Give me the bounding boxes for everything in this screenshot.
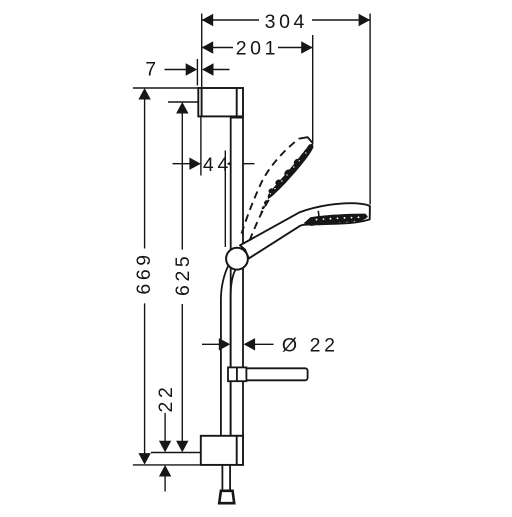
- svg-text:4: 4: [217, 154, 228, 176]
- dashed raised handshower inner curve: [250, 189, 276, 241]
- arrow 625 bottom: [176, 441, 188, 453]
- dimension line 201: [202, 47, 233, 49]
- arrow dia22 right: [244, 338, 256, 350]
- arrow 669 top: [138, 88, 150, 100]
- dimension line 304: [202, 19, 259, 21]
- dashed head band blobs: [260, 199, 269, 213]
- dimension line 625 vertical: [181, 113, 183, 250]
- extension line 7dim aux: [196, 59, 198, 86]
- dimension line 669 vertical: [144, 99, 146, 249]
- dashed head spray band: [268, 144, 314, 199]
- dimension line 44: [173, 163, 191, 165]
- arrow 44 left: [189, 158, 201, 170]
- svg-text:201: 201: [236, 37, 279, 59]
- svg-text:7: 7: [145, 58, 159, 80]
- dashed head cap: [300, 137, 314, 143]
- tick on spray face: [318, 211, 319, 222]
- dimension line 22 vertical: [164, 413, 166, 442]
- extension line wall top: [201, 14, 203, 88]
- handshower spray face band: [304, 214, 368, 226]
- arrow 201 left: [202, 41, 214, 53]
- arrow 22 down: [159, 441, 171, 453]
- dimension line dia22: [202, 343, 220, 345]
- arrow 669 bottom: [138, 453, 150, 465]
- slider holder circle: [226, 248, 248, 270]
- extension line bracket bottom 669/22: [133, 464, 201, 466]
- extension line rail bottom 625/22: [151, 452, 201, 454]
- hose end cone nut: [219, 491, 234, 503]
- arrow 304 right: [359, 14, 371, 26]
- shower rail bar: [231, 118, 243, 436]
- svg-text:Ø 22: Ø 22: [282, 334, 339, 356]
- hose curve from slider: [221, 265, 236, 437]
- dashed head band edge lumps: [268, 148, 309, 193]
- extension line bracket top 669: [133, 87, 198, 89]
- soap dish arm: [228, 367, 308, 381]
- arrow 7 left: [186, 63, 198, 75]
- svg-text:669: 669: [133, 251, 155, 294]
- soap dish collar: [228, 367, 246, 381]
- arrow 304 left: [202, 14, 214, 26]
- dashed head band white specks: [270, 152, 307, 194]
- svg-text:625: 625: [172, 253, 194, 296]
- wall bracket top: [198, 88, 243, 116]
- hose below bottom bracket: [222, 465, 230, 491]
- arrow 7 right: [202, 63, 214, 75]
- arrow 625 top: [176, 102, 188, 114]
- extension line rail top 625: [168, 101, 198, 103]
- arrow 201 right: [301, 41, 313, 53]
- handshower solid body: [240, 203, 370, 258]
- arrow 22 up: [159, 465, 171, 477]
- dimension line 7: [165, 69, 187, 71]
- arrow 44 right: [227, 158, 239, 170]
- extension line wall below bracket: [200, 117, 202, 176]
- wall bracket bottom: [201, 436, 243, 465]
- extension line 304 right: [369, 14, 371, 205]
- extension line hose axis: [224, 151, 226, 248]
- svg-text:4: 4: [203, 154, 214, 176]
- svg-text:304: 304: [265, 11, 308, 33]
- arrow dia22 left: [219, 338, 231, 350]
- dashed raised handshower outer curve: [242, 138, 300, 233]
- spray face white dots: [316, 216, 360, 220]
- extension line 201 right: [312, 35, 314, 144]
- svg-text:22: 22: [155, 384, 177, 413]
